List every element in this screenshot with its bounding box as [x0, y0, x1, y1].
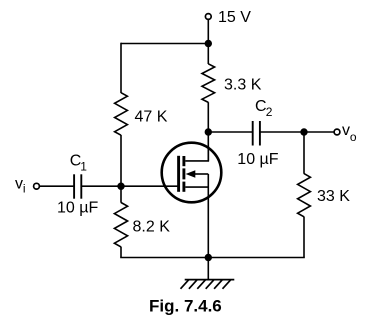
wire 33K lower lead — [303, 217, 305, 258]
wire 8.2K lower lead — [120, 247, 122, 258]
capacitor C1 plates — [73, 174, 75, 198]
capacitor C2 plates — [252, 121, 254, 146]
svg-text:v: v — [15, 176, 23, 193]
ground — [181, 280, 235, 289]
resistor R4 33 K — [298, 174, 311, 217]
transistor Q1 gate bar — [177, 156, 180, 192]
resistor R3 3.3 K — [202, 64, 215, 103]
resistor R2 8.2 K — [114, 203, 127, 247]
wire top rail — [121, 43, 208, 45]
svg-text:15 V: 15 V — [218, 9, 251, 26]
svg-text:i: i — [23, 181, 26, 195]
resistor R3 3.3 K upper lead — [207, 44, 209, 65]
transistor Q1 channel segment top — [182, 156, 185, 166]
input terminal vi — [34, 183, 40, 189]
node gate junction — [117, 183, 124, 190]
svg-text:o: o — [350, 130, 357, 144]
wire source lead — [207, 174, 209, 258]
node drain junction — [205, 128, 212, 135]
transistor Q1 source connection — [185, 186, 208, 188]
node supply junction — [205, 40, 212, 47]
wire supply stub — [207, 20, 209, 44]
svg-text:10 µF: 10 µF — [237, 151, 278, 168]
transistor Q1 channel segment bottom — [182, 182, 185, 192]
svg-text:Fig. 7.4.6: Fig. 7.4.6 — [149, 296, 222, 315]
transistor Q1 channel segment middle — [182, 168, 185, 179]
svg-text:2: 2 — [266, 105, 273, 119]
wire 33K upper lead — [303, 132, 305, 174]
wire C2 right lead — [260, 131, 304, 133]
supply terminal +15V — [205, 14, 211, 20]
wire ground stub — [207, 258, 209, 280]
svg-text:v: v — [342, 122, 350, 139]
svg-text:1: 1 — [80, 160, 87, 174]
node output junction — [300, 128, 307, 135]
svg-text:33 K: 33 K — [317, 188, 350, 205]
transistor Q1 body connection — [193, 173, 208, 175]
wire C2 left lead — [208, 131, 252, 133]
wire 8.2K upper lead — [120, 186, 122, 203]
wire bottom rail — [120, 257, 305, 259]
transistor Q1 MOSFET body circle — [162, 143, 222, 203]
wire gate lead — [81, 185, 177, 187]
output terminal vo — [334, 129, 340, 135]
resistor R1 47 K — [115, 93, 128, 136]
svg-text:8.2 K: 8.2 K — [133, 219, 171, 236]
wire output stub — [304, 131, 334, 133]
transistor Q1 drain connection — [185, 146, 208, 161]
wire input lead — [40, 185, 74, 187]
wire drain lead — [207, 102, 209, 161]
node ground junction — [205, 254, 212, 261]
svg-text:10 µF: 10 µF — [57, 200, 98, 217]
svg-text:3.3 K: 3.3 K — [224, 76, 262, 93]
wire 47K lower lead — [120, 135, 122, 186]
wire left rail upper lead — [120, 43, 122, 93]
transistor Q1 body arrow — [186, 170, 196, 178]
svg-text:47 K: 47 K — [135, 108, 168, 125]
